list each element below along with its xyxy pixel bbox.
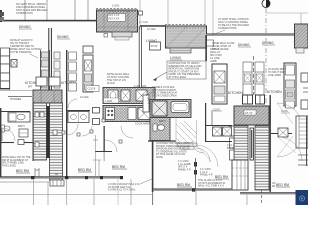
unit3 landing rails bbox=[176, 118, 197, 144]
leader from note to wall bbox=[140, 179, 152, 184]
unit3 WD boxes bbox=[205, 125, 232, 127]
svg-text:12 CEIL: 12 CEIL bbox=[80, 96, 90, 99]
svg-text:THIS LEVEL: THIS LEVEL bbox=[2, 164, 17, 167]
svg-text:ALIGN: ALIGN bbox=[107, 82, 115, 85]
note text unit3 bedroom paragraph bbox=[156, 142, 192, 159]
unit2 hall wall vertical bbox=[104, 126, 105, 152]
svg-text:KITCHEN: KITCHEN bbox=[267, 90, 282, 94]
box right of deck2 bbox=[207, 40, 214, 46]
grid line v3 bbox=[74, 0, 76, 20]
svg-text:POWDER: POWDER bbox=[10, 98, 21, 101]
unit3 left jamb bbox=[205, 35, 207, 61]
note text under wall unit3 bbox=[212, 42, 235, 51]
unit4 closet right wall bbox=[306, 116, 308, 166]
note text unit1 kitchen bbox=[10, 39, 41, 54]
counterA range box bbox=[136, 90, 147, 101]
svg-text:STOR: STOR bbox=[151, 45, 158, 48]
svg-text:COOK AREA: COOK AREA bbox=[135, 123, 150, 126]
unit1 cabinet strip2 bbox=[54, 52, 60, 88]
deck 3 (right edge hatched) bbox=[295, 24, 309, 48]
right edge boxes bbox=[301, 73, 308, 82]
stair2 closet lower-left bbox=[232, 160, 248, 190]
leader note3 bbox=[212, 30, 225, 35]
unit3 chase column bbox=[212, 64, 227, 104]
powder door swing bbox=[33, 97, 41, 105]
svg-text:9FT: 9FT bbox=[28, 86, 33, 89]
svg-text:BED RM: BED RM bbox=[177, 183, 190, 187]
stair1 top cabinets bbox=[36, 77, 47, 86]
counterB cooktop bbox=[106, 108, 115, 120]
grid line v6 bbox=[167, 0, 169, 26]
south wall unit3 bbox=[153, 189, 232, 191]
svg-text:DOOR CASED OPEN: DOOR CASED OPEN bbox=[152, 94, 177, 97]
closet left wall bbox=[211, 110, 213, 126]
note text unit2 below wall bbox=[108, 183, 140, 192]
svg-text:IN THE STANDING: IN THE STANDING bbox=[10, 51, 32, 54]
unit4 wd wall bbox=[271, 133, 292, 135]
right edge ticks mid bbox=[298, 88, 308, 165]
leader bath3 note bbox=[146, 92, 152, 96]
party wall unit2/3 lower bbox=[152, 140, 154, 192]
deck 2 steps below bbox=[170, 48, 191, 53]
svg-text:XXX X XX: XXX X XX bbox=[108, 18, 120, 21]
stair2 right wall bbox=[270, 95, 271, 192]
bath2 door arc bbox=[68, 99, 77, 108]
party wall unit1/2 top bbox=[138, 26, 140, 103]
leader note1 bbox=[30, 54, 38, 58]
dim label 13400 bbox=[104, 98, 119, 103]
svg-text:BED RM: BED RM bbox=[78, 168, 91, 172]
svg-text:NOTE: NOTE bbox=[156, 156, 163, 159]
counterA sink box bbox=[108, 90, 118, 101]
unit3 cabinets strip A inner bbox=[244, 74, 251, 82]
deck 3 step bbox=[296, 48, 304, 53]
deck 1 (hatched balcony) bbox=[97, 10, 138, 32]
unit1 linen box bbox=[19, 129, 28, 137]
svg-text:XX XX: XX XX bbox=[245, 112, 253, 115]
svg-text:WALL 4 CL TIME 4 X 4: WALL 4 CL TIME 4 X 4 bbox=[198, 185, 224, 188]
deck 1 inner label box bbox=[108, 14, 126, 22]
note text top-left bbox=[16, 3, 47, 15]
svg-text:4R: 4R bbox=[55, 173, 58, 176]
deck 1 steps below bbox=[112, 32, 132, 37]
south wall unit4 bbox=[240, 193, 296, 195]
note text above bath3 bbox=[152, 86, 178, 97]
wall jog y26 bbox=[140, 25, 166, 27]
unit2 kitchen counter row A bbox=[103, 88, 155, 104]
stair1 bottom landing box bbox=[50, 180, 64, 186]
dash centerline between strips bbox=[253, 56, 255, 95]
deck 2 tick row bbox=[167, 27, 205, 29]
left edge dark boxes bbox=[0, 12, 4, 16]
deck 1 inner dividers bbox=[97, 10, 138, 32]
unit2 bath door boxes bbox=[93, 108, 100, 114]
stair2 left flight bbox=[234, 126, 248, 160]
svg-text:DINING: DINING bbox=[57, 35, 69, 39]
stair1 upper hatched landing bbox=[33, 90, 62, 103]
svg-text:CONNECTION: CONNECTION bbox=[16, 12, 33, 15]
stair1 flight jamb boxes bbox=[35, 112, 39, 117]
unit4 bedroom door arc bbox=[278, 137, 302, 161]
top wall unit1 bbox=[0, 20, 97, 22]
svg-text:DINING: DINING bbox=[262, 41, 274, 45]
svg-text:DINING: DINING bbox=[19, 25, 31, 29]
stair2 top cabinets bbox=[243, 95, 253, 104]
unit3 bath floor crosshatch upper bbox=[150, 100, 191, 118]
stair1 center wall (dark) bbox=[47, 106, 50, 158]
unit3 tub bbox=[171, 102, 189, 113]
stair2 right flight bbox=[255, 126, 269, 190]
svg-text:1-7 CAL: 1-7 CAL bbox=[139, 21, 149, 24]
dim ticks left of stair1 bottom bbox=[35, 168, 39, 178]
unit1 island cabinets bbox=[42, 52, 49, 98]
counterB fridge X bbox=[138, 108, 150, 120]
unit1 wall below cabinets bbox=[0, 88, 10, 89]
grid line v1 bbox=[24, 0, 26, 20]
svg-text:4 X RM 4 CL TO 4 SEAL: 4 X RM 4 CL TO 4 SEAL bbox=[108, 189, 136, 192]
unit4 closet rod bbox=[296, 116, 308, 148]
unit2 door swings bbox=[67, 124, 78, 135]
unit1 bath wall bbox=[0, 111, 30, 113]
svg-text:CONNECTIONS: CONNECTIONS bbox=[218, 27, 237, 30]
svg-text:BED RM: BED RM bbox=[276, 183, 289, 187]
kitchen1 wall line bbox=[9, 48, 11, 90]
svg-text:LIVING: LIVING bbox=[146, 39, 157, 43]
small note a bbox=[178, 160, 191, 171]
deck1 step small sq bbox=[104, 34, 108, 38]
unit3 bath floor lower bbox=[150, 118, 170, 141]
svg-text:1 3400: 1 3400 bbox=[105, 100, 113, 103]
door jamb marks on wall x195 bbox=[194, 162, 197, 167]
stair1 left wall bbox=[33, 103, 34, 161]
unit2 counter row B bbox=[103, 106, 155, 122]
svg-text:PANEL 4 R: PANEL 4 R bbox=[200, 174, 213, 177]
note tag box unit2 bbox=[86, 86, 99, 92]
unit2 hall wall horiz bbox=[95, 151, 112, 153]
lower grid verticals bbox=[33, 179, 35, 205]
small note b bbox=[200, 168, 213, 177]
unit1 kitchen left cabinet run bbox=[1, 48, 10, 89]
unit2 left cabinet strip bbox=[69, 52, 77, 91]
stair2 hatched landing bbox=[234, 106, 269, 125]
svg-text:12 CEIL: 12 CEIL bbox=[147, 28, 157, 31]
note text unit1 bedroom bbox=[2, 156, 31, 167]
note paragraph unit3 living bbox=[167, 61, 206, 79]
unit3 bath vertical label box bbox=[143, 95, 149, 112]
svg-text:LINE JAMB: LINE JAMB bbox=[268, 74, 281, 77]
grid line v5 bbox=[139, 0, 141, 30]
note text unit3 bottom right bbox=[198, 179, 226, 188]
grid line v8 bbox=[212, 0, 214, 36]
note text unit4 bbox=[268, 68, 288, 77]
unit1 door swing bbox=[2, 128, 15, 141]
note text unit3 right column bbox=[210, 48, 221, 63]
unit3 bath bottom wall bbox=[148, 140, 176, 142]
stair1 right flight treads bbox=[50, 103, 63, 180]
stair1 left flight treads bbox=[33, 103, 47, 160]
svg-text:JAMB: JAMB bbox=[210, 60, 217, 63]
svg-text:BATH: BATH bbox=[147, 97, 150, 104]
svg-text:BED RM: BED RM bbox=[16, 169, 29, 173]
unit3 hall arcs bbox=[196, 148, 210, 162]
svg-text:PANEL 4 R: PANEL 4 R bbox=[178, 168, 191, 171]
stair2 bottom center dashed bbox=[261, 190, 263, 205]
svg-text:BATH: BATH bbox=[18, 125, 25, 128]
unit3 kitchen cabinets strip B bbox=[255, 62, 264, 95]
stair2 left edge cabinets bbox=[230, 126, 235, 136]
deck 2 (gray with lines) bbox=[166, 26, 207, 48]
svg-text:BATH: BATH bbox=[159, 120, 166, 123]
south wall jamb blocks bbox=[31, 176, 34, 179]
unit3 toilet bbox=[153, 124, 157, 131]
leader arrow living note bbox=[153, 72, 167, 80]
column bubble bbox=[262, 0, 270, 8]
powder room wall bbox=[8, 96, 32, 98]
svg-text:LIVING: LIVING bbox=[170, 56, 181, 60]
counterA dw box bbox=[121, 90, 130, 101]
deck 1 corner post bbox=[139, 11, 143, 15]
unit1 bedroom wall bbox=[0, 142, 14, 144]
left exterior wall upper bbox=[0, 10, 2, 22]
deck 2 dashed top bbox=[165, 24, 207, 26]
unit2 party wall left bbox=[66, 50, 67, 178]
unit1 kitchen island wall b bbox=[49, 50, 51, 103]
note near stair2 left bbox=[227, 144, 235, 150]
unit2 bath wall top bbox=[66, 110, 90, 112]
note text unit2 kitchen bbox=[107, 73, 130, 85]
svg-text:1-10%: 1-10% bbox=[112, 5, 120, 8]
grid line v4 bbox=[87, 0, 89, 20]
unit1 kitchen island wall a bbox=[40, 50, 42, 103]
watermark blue box bbox=[296, 190, 309, 205]
svg-text:BED RM: BED RM bbox=[112, 165, 125, 169]
top wall unit3 (right long gray wall) bbox=[206, 34, 295, 36]
stor box left of deck2 bbox=[150, 42, 161, 50]
unit1 door box bbox=[18, 140, 24, 145]
svg-text:4R: 4R bbox=[272, 185, 275, 188]
patio line unit1 bbox=[0, 181, 50, 183]
svg-text:C21CK: C21CK bbox=[88, 88, 96, 91]
stair2 center wall strip bbox=[250, 128, 254, 160]
note text unit3 top bbox=[218, 18, 249, 30]
south wall unit1+2 bbox=[0, 177, 123, 179]
unit2 chase/fireplace column bbox=[83, 46, 93, 53]
svg-text:CLOS: CLOS bbox=[281, 110, 288, 113]
grid line v7 bbox=[204, 0, 206, 36]
svg-text:RM 40: RM 40 bbox=[227, 147, 235, 150]
grid line v2 bbox=[46, 0, 48, 20]
column bubble centerline (dash-dot) bbox=[265, 8, 267, 150]
svg-text:AT THIS LEVEL: AT THIS LEVEL bbox=[169, 76, 187, 79]
grid line v9 bbox=[300, 13, 302, 25]
stair2 landing label bbox=[244, 110, 256, 115]
unit2 bath vanity bbox=[68, 112, 89, 123]
grid line h right top bbox=[266, 12, 308, 14]
ground line full width bbox=[0, 194, 153, 196]
unit4 fridge column bbox=[284, 63, 296, 106]
unit1 wall oven box bbox=[11, 60, 17, 68]
unit3 kitchen cabinets strip A bbox=[243, 62, 252, 95]
deck 1 dashed roofline bbox=[96, 8, 138, 10]
kitchen1 counter bottom line bbox=[0, 90, 40, 92]
dimension line unit2 bedroom bbox=[95, 135, 97, 177]
unit3 hall wall vertical x205 bbox=[205, 103, 206, 142]
unit2 door stop squares bbox=[77, 133, 80, 136]
unit3 landing steps bbox=[177, 143, 197, 147]
svg-text:DINING: DINING bbox=[238, 43, 250, 47]
unit1 bath vanity bbox=[8, 112, 30, 122]
svg-text:KITCHEN: KITCHEN bbox=[228, 91, 243, 95]
unit3 shower box bbox=[152, 101, 167, 116]
deck 1 tick row bbox=[98, 11, 136, 13]
unit4 closet fan arcs bbox=[277, 103, 303, 129]
counterB mid white bbox=[128, 108, 136, 120]
island centre dark wall pair bbox=[48, 28, 50, 92]
unit1 left wall lower bbox=[0, 108, 1, 178]
unit3 bedroom fan arcs bbox=[196, 145, 218, 167]
unit1 toilet bbox=[1, 125, 5, 132]
